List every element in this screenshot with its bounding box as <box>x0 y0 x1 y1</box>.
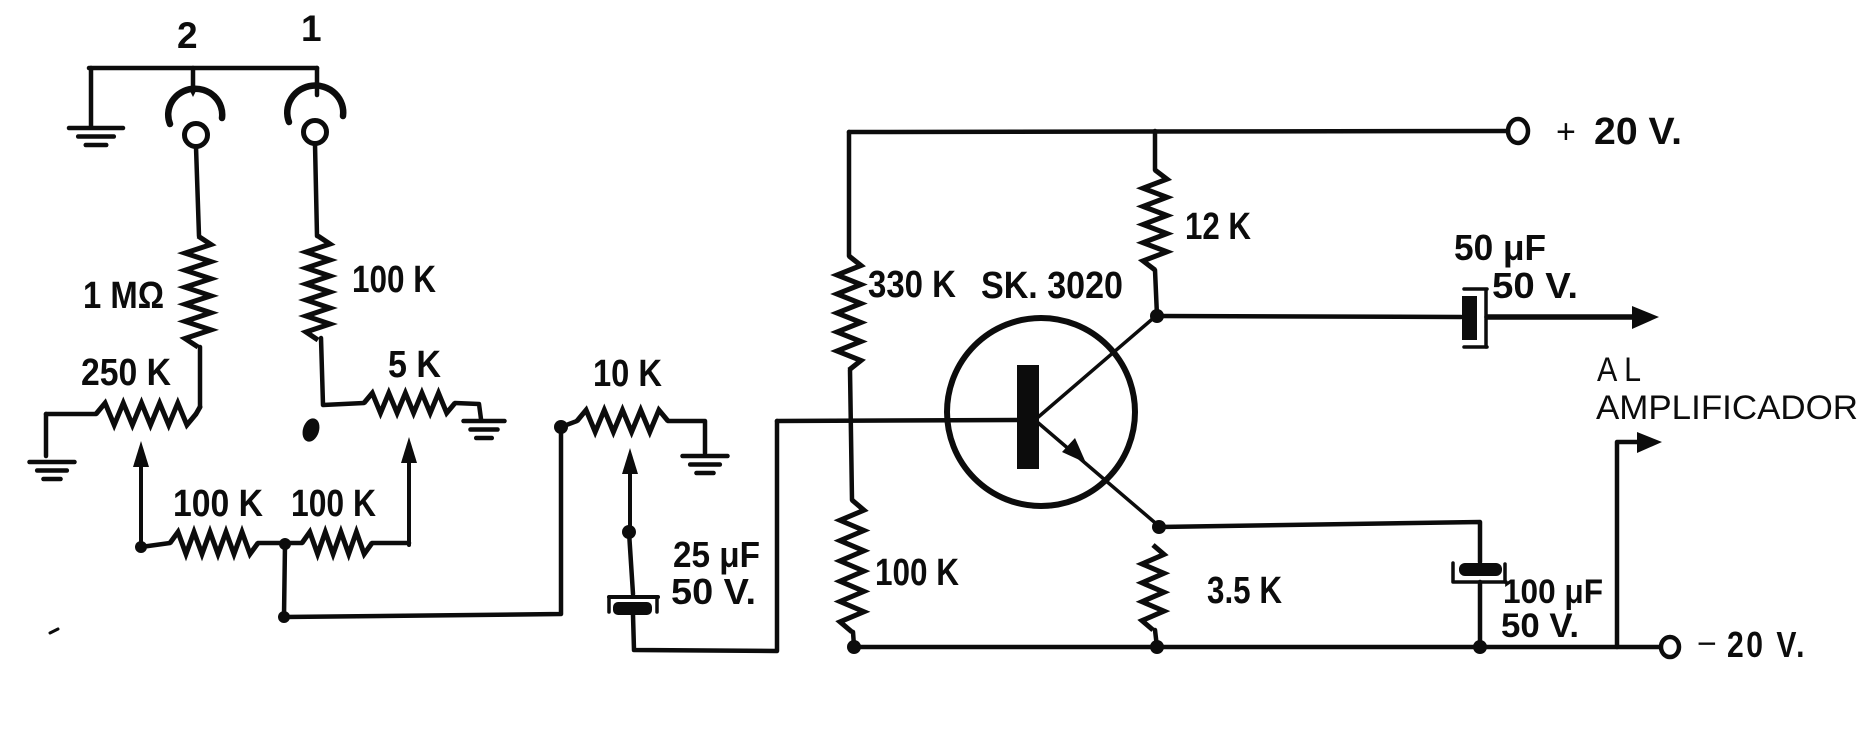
wire 100K-b right lead <box>372 541 409 546</box>
wire 250K left lead <box>46 412 96 417</box>
resistor 100K bias <box>840 500 864 632</box>
wire rail to 330K <box>847 132 852 256</box>
resistor 12K <box>1143 170 1167 270</box>
wire emitter to C100 <box>1159 522 1480 562</box>
ground 10K <box>683 454 728 459</box>
wire 100K-a to mid node <box>258 541 285 546</box>
wire 100K to rail <box>853 632 854 646</box>
pot wiper arrow 5K <box>407 455 411 545</box>
jack J2 arc <box>168 89 222 124</box>
svg-text:SK. 3020: SK. 3020 <box>981 265 1123 307</box>
resistor 5K <box>364 393 455 413</box>
ground input left <box>69 126 123 131</box>
wire base <box>777 420 1020 421</box>
svg-text:1: 1 <box>301 8 322 49</box>
wire 10K right lead <box>668 421 705 453</box>
node dot long-wire left <box>278 611 290 623</box>
wire output arrow top <box>1487 314 1640 320</box>
resistor 100K bottom-a <box>170 532 258 554</box>
node dot 3.5K rail <box>1150 640 1164 654</box>
wire 5K right lead <box>455 403 481 419</box>
svg-text:A L: A L <box>1597 351 1641 389</box>
svg-text:AMPLIFICADOR: AMPLIFICADOR <box>1596 389 1858 427</box>
svg-text:1 MΩ: 1 MΩ <box>83 275 164 317</box>
pot wiper arrow 250K <box>139 459 143 547</box>
wire C25 bottom to base line <box>633 421 777 651</box>
resistor 100K bottom-b <box>302 532 372 554</box>
svg-text:50 V.: 50 V. <box>671 571 756 612</box>
jack J2 tip circle <box>185 124 208 147</box>
wire top rail <box>849 131 1508 132</box>
wire rail to 12K <box>1153 131 1158 170</box>
wire 3.5K to rail <box>1155 630 1157 647</box>
svg-text:25 μF: 25 μF <box>673 534 760 575</box>
transistor Q1 SK.3020 circle <box>947 318 1135 506</box>
wire mid to 100K-b <box>285 541 302 546</box>
wire wiper to C 25uF <box>629 532 633 594</box>
svg-text:+: + <box>1556 113 1576 151</box>
terminal +20V <box>1508 119 1528 143</box>
svg-text:−: − <box>1697 625 1717 663</box>
svg-text:50 V.: 50 V. <box>1501 607 1579 645</box>
node dot mid bottom <box>279 538 291 550</box>
capacitor C 25uF <box>609 595 658 599</box>
transistor emitter line <box>1036 421 1160 527</box>
svg-text:5 K: 5 K <box>388 344 441 386</box>
wire J1 to 100K <box>315 144 317 236</box>
ground 250K <box>30 460 75 465</box>
svg-text:50 μF: 50 μF <box>1454 227 1546 268</box>
svg-text:3.5 K: 3.5 K <box>1207 570 1282 612</box>
wire collector to C50 <box>1157 316 1461 317</box>
wire 330K to 100K <box>850 370 852 500</box>
wire 12K to collector <box>1155 270 1157 316</box>
pot wiper arrow 10K <box>628 466 632 531</box>
jack J1 arc <box>287 86 343 122</box>
transistor base bar <box>1017 365 1039 469</box>
capacitor C 50uF <box>1462 296 1477 340</box>
svg-text:10 K: 10 K <box>593 353 662 395</box>
svg-text:330 K: 330 K <box>868 264 956 306</box>
svg-text:250 K: 250 K <box>81 352 171 394</box>
ink blob <box>300 416 323 444</box>
wire ground drop left <box>89 68 94 127</box>
transistor collector line <box>1036 315 1157 419</box>
jack J1 stub <box>315 68 320 95</box>
node dot C100 rail <box>1473 640 1487 654</box>
node dot 10K left <box>554 420 568 434</box>
svg-text:20 V.: 20 V. <box>1727 624 1807 665</box>
svg-text:100 μF: 100 μF <box>1503 573 1603 611</box>
resistor 100K input <box>306 236 330 340</box>
capacitor C 100uF <box>1459 563 1502 576</box>
resistor 10K <box>561 421 577 427</box>
svg-text:20 V.: 20 V. <box>1594 111 1682 153</box>
node dot emitter <box>1152 520 1166 534</box>
wire 100K to 5K <box>321 338 364 405</box>
svg-text:12 K: 12 K <box>1185 206 1251 248</box>
svg-text:100 K: 100 K <box>875 552 959 594</box>
terminal -20V <box>1661 637 1679 657</box>
wire input bus top <box>89 66 317 71</box>
transistor emitter arrow <box>1062 438 1086 463</box>
wire C100 to rail <box>1478 582 1483 647</box>
wire J2 to R1 <box>196 147 199 236</box>
node dot 10K wiper <box>622 525 636 539</box>
resistor 330K <box>837 256 861 370</box>
wire R1M to 250K <box>198 347 203 407</box>
wire output 2 vertical <box>1617 442 1644 647</box>
node dot collector <box>1150 309 1164 323</box>
svg-text:2: 2 <box>177 15 198 56</box>
resistor 3.5K <box>1142 545 1164 630</box>
svg-text:100 K: 100 K <box>173 483 263 525</box>
svg-text:100 K: 100 K <box>291 483 376 525</box>
jack J1 tip circle <box>304 121 327 144</box>
wire bottom rail <box>854 645 1659 650</box>
svg-text:50 V.: 50 V. <box>1492 265 1578 306</box>
node dot rail left <box>847 640 861 654</box>
jack J2 stub <box>191 68 196 90</box>
svg-text:100 K: 100 K <box>352 259 436 301</box>
wire dot to 100K-a <box>141 543 170 547</box>
ground 5K <box>464 419 505 424</box>
wire long bottom to 10K <box>284 427 561 617</box>
resistor R 1M <box>185 236 211 347</box>
wire mid node down <box>284 544 285 616</box>
resistor 250K <box>96 403 196 425</box>
node dot pot1 left <box>135 541 147 553</box>
stray mark <box>50 629 58 633</box>
